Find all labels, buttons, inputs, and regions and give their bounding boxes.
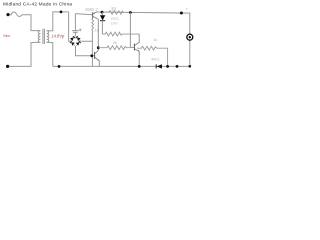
node collector junction dot (97, 46, 100, 49)
LED D5 red (101, 12, 103, 15)
node AC terminal bottom-left (6, 65, 9, 68)
wire secondary bottom to ground rail (47, 42, 53, 66)
svg-text:8550 2: 8550 2 (85, 7, 98, 12)
wire bridge bottom to Q3 base (76, 46, 95, 55)
wire cap top to Q1 base (75, 14, 92, 15)
transformer T1 secondary winding (47, 31, 49, 43)
resistor R 100 horizontal (102, 32, 139, 36)
svg-text:2k: 2k (113, 40, 117, 45)
wire top-left to transformer (23, 15, 41, 31)
svg-text:14.8Vp: 14.8Vp (51, 34, 65, 39)
node dot on bottom rail (58, 65, 61, 68)
transformer T1 primary winding (38, 31, 40, 43)
svg-text:100: 100 (111, 21, 118, 26)
bridge rectifier D1-D4 diamond (69, 36, 81, 47)
wire secondary top to rail (47, 12, 69, 31)
node AC terminal top-left (6, 13, 9, 16)
capacitor C1 (74, 14, 76, 31)
wire bridge right corner to vertical (81, 32, 92, 67)
wire x130 vertical (130, 13, 134, 48)
wire AC1 down to bridge (68, 12, 71, 41)
wire primary bottom to left terminal (8, 42, 41, 66)
fuse F1 (10, 12, 23, 16)
svg-text:1k: 1k (153, 37, 157, 42)
transistor Q2 (133, 44, 136, 51)
transistor Q3 (93, 52, 96, 59)
bottom rail wire (53, 40, 190, 66)
transformer core (42, 29, 44, 44)
node dot on rail x130 (129, 11, 132, 14)
top rail (97, 12, 189, 34)
svg-text:+: + (186, 7, 189, 12)
svg-text:Sec: Sec (3, 33, 10, 38)
plus polarity mark (79, 29, 82, 32)
output jack terminal (187, 34, 193, 40)
node junction dot base (90, 54, 93, 57)
diode top-right (77, 37, 81, 41)
node LED tap dot (101, 11, 104, 14)
diode bottom-right (76, 42, 80, 46)
node dots bottom rail (138, 65, 141, 68)
svg-text:Midland CA-42 Made in China: Midland CA-42 Made in China (3, 1, 72, 6)
diode top-left (70, 37, 74, 41)
svg-text:4001: 4001 (151, 57, 159, 61)
diode bottom-left (71, 42, 75, 46)
node dot top rail right (180, 12, 183, 15)
node junction dot (60, 11, 63, 14)
